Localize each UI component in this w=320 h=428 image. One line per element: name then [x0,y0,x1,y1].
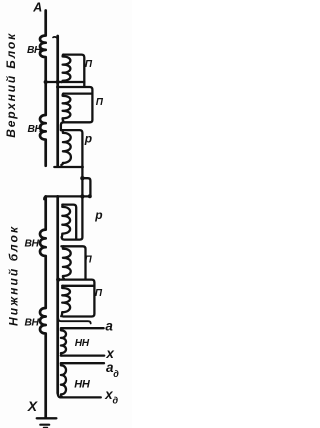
svg-text:ВН: ВН [27,45,42,56]
wire line 2 lower [56,196,59,393]
wire НН2 top to terminal а_д [61,362,104,364]
ground bar 3 [44,427,48,428]
svg-text:НН: НН [75,338,90,349]
coil П1 [61,55,70,83]
svg-text:р: р [94,208,102,222]
node dot wireA-line2 [56,80,60,84]
ground bar 1 [37,417,57,419]
wire L (lower block top) [44,196,88,199]
node dot link-178 [80,176,84,180]
coil Р1 [61,130,71,165]
svg-text:д: д [113,369,119,379]
svg-text:д: д [113,396,119,406]
coil П2 [63,94,71,122]
svg-text:ВН: ВН [25,238,40,249]
wire tap 321 from line2' [58,318,90,324]
svg-text:НН: НН [74,379,91,391]
wire tick at line2 top [53,37,58,39]
coil П4 [61,286,70,316]
svg-text:р: р [84,132,92,146]
svg-text:П: П [85,59,93,70]
node dot П3bottom-line2 [56,278,60,282]
node dot wireL-mini [88,194,92,198]
svg-text:х: х [105,346,114,361]
wire U (upper block bottom) [54,166,82,168]
node dot wireB-line2 [56,85,59,88]
svg-text:П: П [96,97,104,108]
svg-text:П: П [95,288,103,299]
svg-text:а: а [105,319,113,334]
wire П2 top [63,92,92,94]
svg-text:ВН: ВН [28,124,43,135]
wire B tap with П2 loop right side and bottom [58,87,93,130]
coil П3 [63,246,71,278]
wire stub 178 to mini vertical [82,178,90,196]
coil Р2 [62,205,70,238]
wire НН1 bottom to terminal x [61,354,104,356]
coil НН2 [61,363,66,397]
svg-text:Нижний блок: Нижний блок [6,225,20,326]
wire П3 bottom / П4 feed with П4 right side and bottom [58,280,95,317]
wire П3 top and right side [61,246,85,279]
wire П4 top [62,285,94,287]
wire Р2 top and right side [62,205,76,239]
wire Р1 top and right side [61,130,83,167]
ground bar 2 [40,424,49,426]
wire A tap [46,81,85,83]
wire line 2 upper (neutral riser) [56,36,59,167]
svg-text:ВН: ВН [25,317,40,328]
svg-text:П: П [85,255,93,266]
wire link vertical to lower block with Р2 bottom [62,167,83,240]
node dot wireL-link [80,194,84,198]
wire main HV line upper (line 1) with winding ВН1 and ВН2 [40,11,46,166]
wire НН2 bottom to terminal х_д (line2' curves in) [58,393,101,398]
node dot wireU-link [81,166,84,169]
wire НН1 top to terminal a [61,327,104,329]
svg-text:Верхний Блок: Верхний Блок [4,32,18,138]
wire main HV line lower (line 1') with winding ВН3 and ВН4, to ground [40,196,46,417]
coil НН1 [61,328,66,355]
node dot wireA-line1 [44,80,48,84]
winding П1 coil with top wire and right side [63,55,84,87]
svg-text:Х: Х [27,398,39,414]
svg-text:А: А [32,1,42,15]
